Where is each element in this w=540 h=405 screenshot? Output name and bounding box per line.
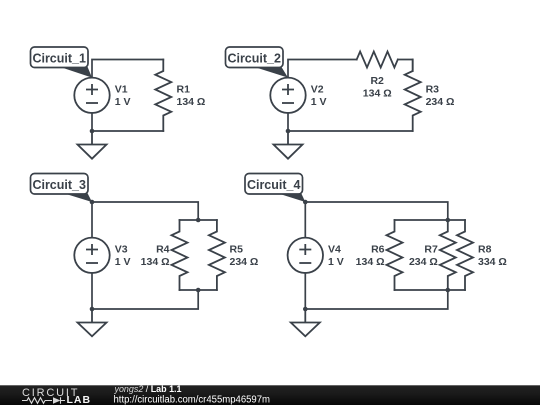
node C4 bar bottom junction [446,288,451,293]
footer bar [0,385,540,405]
wire C2 top left [288,60,357,78]
wire C1 top [92,60,163,78]
svg-text:1 V: 1 V [115,96,131,108]
voltage source V3 [74,238,109,273]
svg-text:334 Ω: 334 Ω [478,256,507,268]
svg-text:234 Ω: 234 Ω [230,256,259,268]
svg-text:134 Ω: 134 Ω [363,87,392,99]
svg-text:R4: R4 [156,244,170,256]
svg-text:234 Ω: 234 Ω [409,256,438,268]
wire C4 bottom [305,273,448,309]
ground [78,309,107,336]
svg-text:http://circuitlab.com/cr455mp4: http://circuitlab.com/cr455mp46597m [114,394,271,405]
node C3 bar top junction [196,218,201,223]
wire C1 bottom [92,113,163,131]
value label V3 [115,244,131,269]
svg-text:R1: R1 [177,84,191,96]
svg-text:134 Ω: 134 Ω [177,96,206,108]
svg-text:234 Ω: 234 Ω [426,96,455,108]
ground [274,131,303,159]
svg-text:134 Ω: 134 Ω [141,256,170,268]
voltage source V4 [288,238,323,273]
resistor R8 [457,220,473,290]
wire C3 top [92,202,198,238]
svg-text:R7: R7 [424,244,438,256]
node C4 top node [303,200,308,205]
label flag Circuit_3 [31,174,93,203]
svg-text:1 V: 1 V [328,256,344,268]
svg-text:Circuit_3: Circuit_3 [32,178,86,192]
value label R1 [177,84,206,109]
node C3 gnd junction [90,307,95,312]
resistor R6 [387,220,403,290]
label flag Circuit_1 [31,47,93,78]
label flag Circuit_2 [226,47,289,78]
wire C4 bottom bar [395,289,466,291]
value label R8 [478,244,507,269]
label flag Circuit_4 [245,174,305,203]
svg-text:V1: V1 [115,84,128,96]
svg-text:R8: R8 [478,244,492,256]
resistor R2 [357,52,398,68]
svg-text:Circuit_1: Circuit_1 [32,51,86,65]
svg-text:R6: R6 [371,244,385,256]
svg-text:V2: V2 [311,84,324,96]
wire C2 top right [398,60,413,72]
resistor R5 [209,220,225,290]
ground [78,131,107,159]
svg-text:1 V: 1 V [311,96,327,108]
svg-text:R5: R5 [230,244,244,256]
wire C2 bottom [288,113,413,131]
ground [291,309,320,336]
svg-text:R2: R2 [370,75,384,87]
node C3 bar bottom junction [196,288,201,293]
CircuitLab logo wordmark [22,387,91,405]
node C3 top node [90,200,95,205]
resistor R7 [440,220,456,290]
resistor R4 [172,220,188,290]
svg-text:134 Ω: 134 Ω [356,256,385,268]
value label R7 [409,244,438,269]
logo mini circuit: wire-resistor-wire-diode-wire [22,397,65,403]
resistor R3 [405,60,421,132]
wire C3 bottom bar [180,289,217,291]
wire C3 top bar [180,219,217,221]
svg-text:Circuit_2: Circuit_2 [227,51,281,65]
value label R5 [230,244,259,269]
node C1 gnd junction [90,129,95,134]
voltage source V2 [270,78,305,113]
value label R3 [426,84,455,109]
value label V2 [311,84,327,109]
value label V4 [328,244,344,269]
svg-text:R3: R3 [426,84,440,96]
wire C4 top bar [395,219,466,221]
node C4 bar top junction [446,218,451,223]
wire C4 top [305,202,448,238]
value label V1 [115,84,131,109]
node C4 gnd junction [303,307,308,312]
value label R6 [356,244,385,269]
value label R2 [363,75,392,100]
svg-text:LAB: LAB [67,394,92,405]
voltage source V1 [74,78,109,113]
svg-text:V4: V4 [328,244,341,256]
svg-text:1 V: 1 V [115,256,131,268]
value label R4 [141,244,170,269]
svg-text:Circuit_4: Circuit_4 [247,178,301,192]
resistor R1 [155,60,171,132]
svg-text:V3: V3 [115,244,128,256]
node C2 gnd junction [286,129,291,134]
wire C3 bottom [92,273,198,309]
